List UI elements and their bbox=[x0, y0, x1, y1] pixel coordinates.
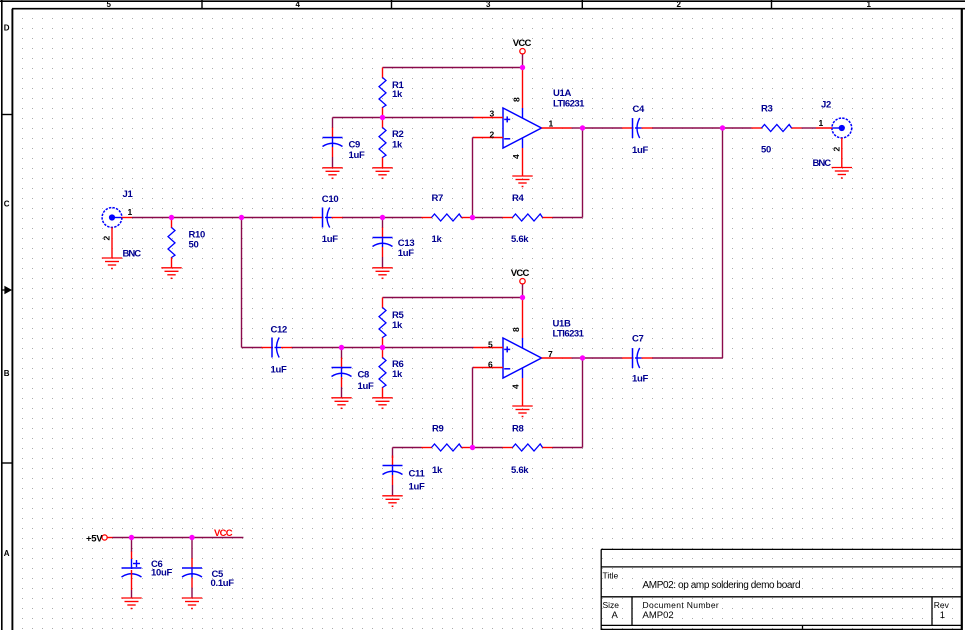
resistor R8 bbox=[503, 444, 553, 451]
svg-text:2: 2 bbox=[831, 147, 841, 152]
capacitor C8 bbox=[332, 358, 352, 398]
ground J1 bbox=[102, 258, 122, 269]
wire U1A pin2 vertical to feedback node bbox=[473, 138, 475, 218]
svg-text:5: 5 bbox=[107, 0, 112, 9]
svg-text:VCC: VCC bbox=[214, 528, 233, 539]
wire VCC symbol to node A bbox=[522, 54, 524, 68]
svg-text:1uF: 1uF bbox=[398, 248, 414, 259]
junction C6 bbox=[129, 535, 134, 540]
svg-text:1uF: 1uF bbox=[271, 365, 287, 376]
resistor R3 bbox=[752, 125, 802, 132]
svg-text:4: 4 bbox=[511, 154, 521, 159]
svg-text:1: 1 bbox=[128, 207, 133, 217]
svg-text:4: 4 bbox=[296, 0, 301, 9]
J1 label bbox=[123, 189, 134, 200]
wire VCC node to U1A pin8 bbox=[522, 68, 524, 109]
svg-text:0.1uF: 0.1uF bbox=[211, 578, 235, 589]
resistor R5 bbox=[379, 298, 386, 348]
svg-text:R2: R2 bbox=[392, 129, 404, 140]
C10 value 1uF bbox=[322, 234, 338, 245]
wire U1A output to node bbox=[572, 127, 583, 129]
C10 label bbox=[322, 194, 339, 205]
svg-text:C7: C7 bbox=[632, 334, 644, 345]
svg-text:LTI6231: LTI6231 bbox=[553, 329, 585, 340]
svg-text:1uF: 1uF bbox=[632, 374, 648, 385]
svg-text:C4: C4 bbox=[633, 104, 646, 115]
resistor R9 bbox=[422, 444, 472, 451]
wire C4 to J2 node bbox=[652, 127, 723, 129]
svg-text:C9: C9 bbox=[349, 140, 361, 151]
svg-text:C8: C8 bbox=[358, 370, 370, 381]
capacitor C12 bbox=[262, 338, 293, 358]
svg-text:50: 50 bbox=[761, 145, 771, 156]
U1A pin 8 number bbox=[512, 97, 522, 102]
capacitor C5 bbox=[182, 558, 202, 598]
R3 value 50 bbox=[761, 145, 771, 156]
C5 label bbox=[212, 569, 225, 580]
R2 label bbox=[392, 129, 404, 140]
svg-text:10uF: 10uF bbox=[151, 568, 172, 579]
svg-text:A: A bbox=[4, 549, 10, 558]
junction J2 branch bbox=[720, 125, 725, 130]
R4 label bbox=[512, 193, 525, 204]
ground R10 bbox=[161, 268, 181, 279]
svg-text:1uF: 1uF bbox=[349, 150, 365, 161]
R8 label bbox=[512, 424, 524, 435]
C7 label bbox=[632, 334, 644, 345]
junction R9/R8 bbox=[470, 445, 475, 450]
wire R7/R4 node to R4 bbox=[473, 217, 503, 219]
R9 label bbox=[432, 424, 444, 435]
wire R8 to vertical bbox=[553, 447, 583, 449]
wire R10 node to branch node bbox=[172, 217, 242, 219]
wire R3 to J2 bbox=[802, 127, 817, 129]
junction branch bbox=[239, 215, 244, 220]
power +5V bbox=[86, 534, 113, 545]
connector J1 BNC bbox=[102, 208, 132, 258]
svg-text:C11: C11 bbox=[409, 469, 426, 480]
C6 label bbox=[151, 559, 163, 570]
svg-text:B: B bbox=[4, 369, 10, 378]
junction VCC B bbox=[520, 295, 525, 300]
wire C13 node to R7 bbox=[383, 217, 422, 219]
R7 label bbox=[432, 193, 444, 204]
U1A pin 3 number bbox=[490, 109, 495, 119]
svg-text:8: 8 bbox=[511, 327, 521, 332]
R10 value 50 bbox=[189, 240, 199, 251]
svg-text:1: 1 bbox=[549, 119, 554, 129]
svg-text:R9: R9 bbox=[432, 424, 444, 435]
resistor R1 bbox=[379, 68, 386, 118]
capacitor C11 bbox=[383, 456, 403, 496]
svg-text:1: 1 bbox=[867, 0, 872, 9]
connector J2 BNC bbox=[816, 118, 852, 167]
svg-text:J2: J2 bbox=[821, 100, 831, 111]
wire C9 drop bbox=[332, 118, 334, 129]
C9 value 1uF bbox=[349, 150, 365, 161]
U1A pin 4 number bbox=[511, 154, 521, 159]
wire J1 pin1 to R10 node bbox=[132, 217, 172, 219]
resistor R10 bbox=[168, 218, 175, 268]
C12 label bbox=[271, 325, 288, 336]
svg-text:C: C bbox=[4, 200, 10, 209]
svg-text:+5V: +5V bbox=[86, 534, 103, 545]
title block bbox=[601, 549, 962, 630]
ground C6 bbox=[121, 598, 141, 609]
C6 value 10uF bbox=[151, 568, 172, 579]
junction U1A output bbox=[580, 125, 585, 130]
svg-text:3: 3 bbox=[490, 109, 495, 119]
wire R5/R6 node to U1B pin5 bbox=[383, 347, 474, 349]
svg-text:VCC: VCC bbox=[511, 268, 530, 279]
svg-text:VCC: VCC bbox=[513, 38, 532, 49]
wire +5V rail bbox=[113, 537, 244, 539]
svg-text:1uF: 1uF bbox=[322, 234, 338, 245]
C13 label bbox=[398, 238, 415, 249]
R2 value 1k bbox=[392, 140, 403, 151]
svg-text:C10: C10 bbox=[322, 194, 339, 205]
svg-text:50: 50 bbox=[189, 240, 199, 251]
J1 pin 2 number bbox=[102, 236, 112, 241]
resistor R7 bbox=[422, 214, 472, 221]
power VCC U1A bbox=[513, 38, 532, 54]
C9 label bbox=[349, 140, 361, 151]
ground U1B pin4 bbox=[512, 406, 532, 417]
resistor R6 bbox=[379, 348, 386, 398]
capacitor C13 bbox=[373, 228, 393, 268]
J1 value BNC bbox=[123, 249, 142, 260]
svg-text:5.6k: 5.6k bbox=[511, 465, 529, 476]
op-amp U1B bbox=[474, 338, 572, 406]
svg-text:D: D bbox=[4, 24, 10, 33]
ground C11 bbox=[382, 496, 402, 507]
junction C13 bbox=[380, 215, 385, 220]
wire U1B pin6 vertical to feedback node bbox=[473, 368, 475, 448]
U1A value LTI6231 bbox=[553, 99, 585, 110]
svg-text:BNC: BNC bbox=[123, 249, 142, 260]
wire branch down to channel B bbox=[241, 218, 243, 348]
svg-text:1uF: 1uF bbox=[409, 482, 425, 493]
wire U1B output node to C7 bbox=[583, 357, 623, 359]
wire vertical U1B output to R8 bbox=[582, 358, 584, 448]
J2 label bbox=[821, 100, 831, 111]
wire branch node to C10 bbox=[242, 217, 313, 219]
svg-text:AMP02: AMP02 bbox=[643, 610, 674, 621]
svg-text:Document Number: Document Number bbox=[643, 600, 720, 610]
wire C11 to R9 bbox=[393, 447, 422, 449]
svg-text:3: 3 bbox=[486, 0, 491, 9]
svg-text:R8: R8 bbox=[512, 424, 524, 435]
C5 value 0.1uF bbox=[211, 578, 235, 589]
power VCC U1B bbox=[511, 268, 530, 284]
C8 label bbox=[358, 370, 370, 381]
wire VCC to R5 top bbox=[383, 297, 523, 299]
C11 value 1uF bbox=[409, 482, 425, 493]
svg-text:BNC: BNC bbox=[813, 158, 832, 169]
wire VCC node to U1B pin8 bbox=[522, 298, 524, 339]
junction R7/R4 bbox=[470, 215, 475, 220]
svg-text:U1A: U1A bbox=[553, 88, 572, 99]
U1B pin 7 number bbox=[548, 349, 553, 359]
svg-text:2: 2 bbox=[677, 0, 682, 9]
svg-text:2: 2 bbox=[102, 236, 112, 241]
svg-text:1k: 1k bbox=[392, 140, 403, 151]
ground C13 bbox=[372, 268, 392, 279]
svg-text:AMP02: op amp soldering demo b: AMP02: op amp soldering demo board bbox=[643, 580, 801, 591]
R9 value 1k bbox=[432, 465, 443, 476]
svg-text:1k: 1k bbox=[392, 320, 403, 331]
R7 value 1k bbox=[432, 234, 443, 245]
ground R6 bbox=[372, 398, 392, 409]
C4 value 1uF bbox=[632, 145, 648, 156]
C4 label bbox=[633, 104, 646, 115]
J1 pin 1 number bbox=[128, 207, 133, 217]
wire vertical R4 to U1A output node bbox=[582, 128, 584, 218]
wire output node to C4 bbox=[583, 127, 623, 129]
ground C5 bbox=[182, 598, 202, 609]
svg-text:1uF: 1uF bbox=[632, 145, 648, 156]
svg-text:Size: Size bbox=[603, 600, 620, 610]
svg-text:1: 1 bbox=[819, 118, 824, 128]
svg-text:LTI6231: LTI6231 bbox=[553, 99, 585, 110]
R1 value 1k bbox=[392, 89, 403, 100]
capacitor C10 bbox=[312, 208, 343, 228]
C8 value 1uF bbox=[358, 381, 374, 392]
svg-text:A: A bbox=[612, 610, 619, 621]
svg-text:J1: J1 bbox=[123, 189, 134, 200]
R6 value 1k bbox=[392, 369, 403, 380]
wire C11 drop bbox=[392, 448, 394, 459]
C7 value 1uF bbox=[632, 374, 648, 385]
svg-text:1: 1 bbox=[940, 610, 945, 621]
J2 pin 2 number bbox=[831, 147, 841, 152]
op-amp U1A bbox=[474, 108, 572, 176]
svg-text:5.6k: 5.6k bbox=[511, 234, 529, 245]
junction R1/R2 bbox=[380, 115, 385, 120]
svg-text:7: 7 bbox=[548, 349, 553, 359]
wire C8 node to R5/R6 node bbox=[342, 347, 383, 349]
svg-text:1uF: 1uF bbox=[358, 381, 374, 392]
C13 value 1uF bbox=[398, 248, 414, 259]
wire J2 node to R3 bbox=[723, 127, 752, 129]
svg-text:5: 5 bbox=[488, 340, 493, 350]
svg-text:R3: R3 bbox=[761, 104, 773, 115]
C11 label bbox=[409, 469, 426, 480]
capacitor C7 bbox=[622, 348, 653, 368]
junction C5 bbox=[189, 535, 194, 540]
resistor R2 bbox=[379, 118, 386, 168]
R5 value 1k bbox=[392, 320, 403, 331]
U1B value LTI6231 bbox=[553, 329, 585, 340]
J2 pin 1 number bbox=[819, 118, 824, 128]
junction C8 bbox=[339, 345, 344, 350]
wire C10 to C13 node bbox=[342, 217, 383, 219]
U1B pin 5 number bbox=[488, 340, 493, 350]
U1A pin 2 number bbox=[490, 130, 495, 140]
ground R2 bbox=[372, 168, 392, 179]
wire R9/R8 node to R8 bbox=[473, 447, 503, 449]
svg-text:Rev: Rev bbox=[934, 600, 950, 610]
U1B pin 8 number bbox=[511, 327, 521, 332]
R8 value 5.6k bbox=[511, 465, 529, 476]
net label VCC bbox=[214, 528, 233, 539]
wire C9 to pin3 node bbox=[333, 117, 383, 119]
svg-text:1k: 1k bbox=[392, 369, 403, 380]
R10 label bbox=[189, 230, 206, 241]
wire pin3 node to U1A bbox=[383, 117, 474, 119]
U1B pin 4 number bbox=[511, 384, 521, 389]
wire R4 to output branch bbox=[553, 217, 583, 219]
C12 value 1uF bbox=[271, 365, 287, 376]
wire C6 drop bbox=[131, 538, 133, 553]
svg-text:1k: 1k bbox=[432, 465, 443, 476]
junction VCC A bbox=[520, 65, 525, 70]
R3 label bbox=[761, 104, 773, 115]
wire C13 drop bbox=[382, 218, 384, 229]
svg-text:6: 6 bbox=[488, 360, 493, 370]
U1B label bbox=[553, 319, 572, 330]
wire C7 to vertical bbox=[652, 357, 723, 359]
svg-text:2: 2 bbox=[490, 130, 495, 140]
wire VCC to R1 top bbox=[383, 67, 523, 69]
wire VCC symbol to node B bbox=[522, 284, 524, 298]
svg-text:8: 8 bbox=[512, 97, 522, 102]
junction R5/R6 bbox=[380, 345, 385, 350]
capacitor C9 bbox=[323, 128, 343, 168]
R5 label bbox=[392, 310, 405, 321]
R6 label bbox=[392, 359, 404, 370]
U1A pin 1 number bbox=[549, 119, 554, 129]
ground J2 bbox=[832, 168, 852, 179]
wire vertical J2 node to C7 output bbox=[722, 128, 724, 358]
svg-text:1k: 1k bbox=[392, 89, 403, 100]
wire C5 drop bbox=[191, 538, 193, 559]
wire C8 drop bbox=[341, 348, 343, 359]
J2 value BNC bbox=[813, 158, 832, 169]
wire C12 to C8 node bbox=[292, 347, 342, 349]
U1B pin 6 number bbox=[488, 360, 493, 370]
svg-text:R4: R4 bbox=[512, 193, 525, 204]
wire branch to C12 bbox=[242, 347, 263, 349]
capacitor C4 bbox=[622, 118, 653, 138]
resistor R4 bbox=[503, 214, 553, 221]
svg-text:4: 4 bbox=[511, 384, 521, 389]
junction U1B output bbox=[580, 355, 585, 360]
svg-text:Title: Title bbox=[603, 571, 619, 581]
capacitor C6 bbox=[122, 552, 142, 599]
U1A label bbox=[553, 88, 572, 99]
svg-text:R7: R7 bbox=[432, 193, 444, 204]
wire U1B output to node bbox=[572, 357, 583, 359]
ground C9 bbox=[322, 168, 342, 179]
svg-text:C12: C12 bbox=[271, 325, 288, 336]
junction R10 bbox=[169, 215, 174, 220]
ground C8 bbox=[331, 398, 351, 409]
svg-text:1k: 1k bbox=[432, 234, 443, 245]
ground U1A pin4 bbox=[512, 176, 532, 187]
R1 label bbox=[392, 80, 405, 91]
R4 value 5.6k bbox=[511, 234, 529, 245]
